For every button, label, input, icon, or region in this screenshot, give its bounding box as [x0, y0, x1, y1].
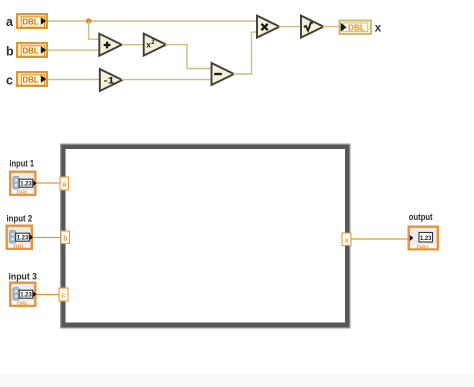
- svg-text:DBL: DBL: [13, 245, 26, 251]
- tunnel x (output): [342, 233, 351, 246]
- svg-text:DBL: DBL: [23, 45, 39, 55]
- svg-text:1.23: 1.23: [420, 235, 432, 242]
- svg-text:x: x: [345, 238, 349, 245]
- svg-text:output: output: [409, 212, 433, 223]
- terminal c (DBL control): [17, 72, 47, 86]
- svg-text:1.23: 1.23: [20, 181, 32, 188]
- wire add to x2: [122, 44, 145, 46]
- svg-text:input 1: input 1: [10, 159, 35, 170]
- svg-text:input 2: input 2: [7, 214, 33, 225]
- svg-text:b: b: [6, 45, 14, 59]
- svg-text:c: c: [6, 74, 13, 88]
- indicator x (DBL): [340, 21, 372, 35]
- numeric indicator output: [409, 227, 438, 252]
- tunnel c: [59, 288, 68, 301]
- tunnel b: [61, 231, 70, 244]
- svg-text:DBL: DBL: [23, 16, 39, 26]
- terminal a (DBL control): [17, 14, 47, 28]
- wire negate to subtract bottom input: [121, 79, 212, 81]
- faint bottom band: [0, 374, 474, 387]
- numeric control input 3: [10, 283, 36, 308]
- wire input 3 to tunnel c: [37, 294, 60, 296]
- wire a-branch down to add top input: [89, 21, 101, 39]
- svg-text:DBL: DBL: [348, 23, 365, 33]
- svg-text:a: a: [62, 182, 66, 189]
- tunnel a: [60, 177, 69, 190]
- svg-text:a: a: [6, 15, 14, 29]
- wire b to add bottom input: [48, 49, 100, 51]
- wire c to negate input: [48, 79, 101, 81]
- wire tunnel x to output indicator: [351, 238, 408, 240]
- numeric control input 1: [10, 172, 36, 197]
- wire subtract to multiply bottom input: [233, 32, 258, 74]
- svg-text:-1: -1: [104, 75, 116, 86]
- junction dot on wire a: [86, 18, 91, 23]
- wire sqrt to indicator x: [323, 26, 341, 28]
- terminal b (DBL control): [17, 43, 47, 57]
- wire x2 to subtract top input: [165, 45, 212, 69]
- multiply node: [257, 16, 280, 38]
- svg-text:1.23: 1.23: [17, 235, 29, 242]
- subtract node: [212, 63, 235, 85]
- add node: [99, 34, 122, 56]
- wire a to multiply top input: [48, 20, 258, 22]
- svg-text:DBL: DBL: [17, 302, 30, 308]
- svg-text:DBL: DBL: [416, 245, 431, 251]
- negate node -1: [100, 69, 123, 91]
- svg-text:DBL: DBL: [23, 74, 39, 84]
- wire multiply to sqrt: [279, 26, 303, 28]
- wire input 2 to tunnel b: [34, 237, 62, 239]
- svg-text:x: x: [375, 21, 382, 35]
- x2 node: [144, 34, 167, 56]
- svg-text:1.23: 1.23: [20, 292, 32, 299]
- numeric control input 2: [7, 226, 33, 251]
- formula node frame: [60, 144, 351, 329]
- wire input 1 to tunnel a: [37, 182, 61, 184]
- svg-text:DBL: DBL: [17, 191, 30, 197]
- svg-text:input 3: input 3: [9, 272, 38, 283]
- svg-text:b: b: [63, 236, 67, 243]
- sqrt node: [301, 16, 324, 38]
- svg-text:c: c: [62, 293, 66, 300]
